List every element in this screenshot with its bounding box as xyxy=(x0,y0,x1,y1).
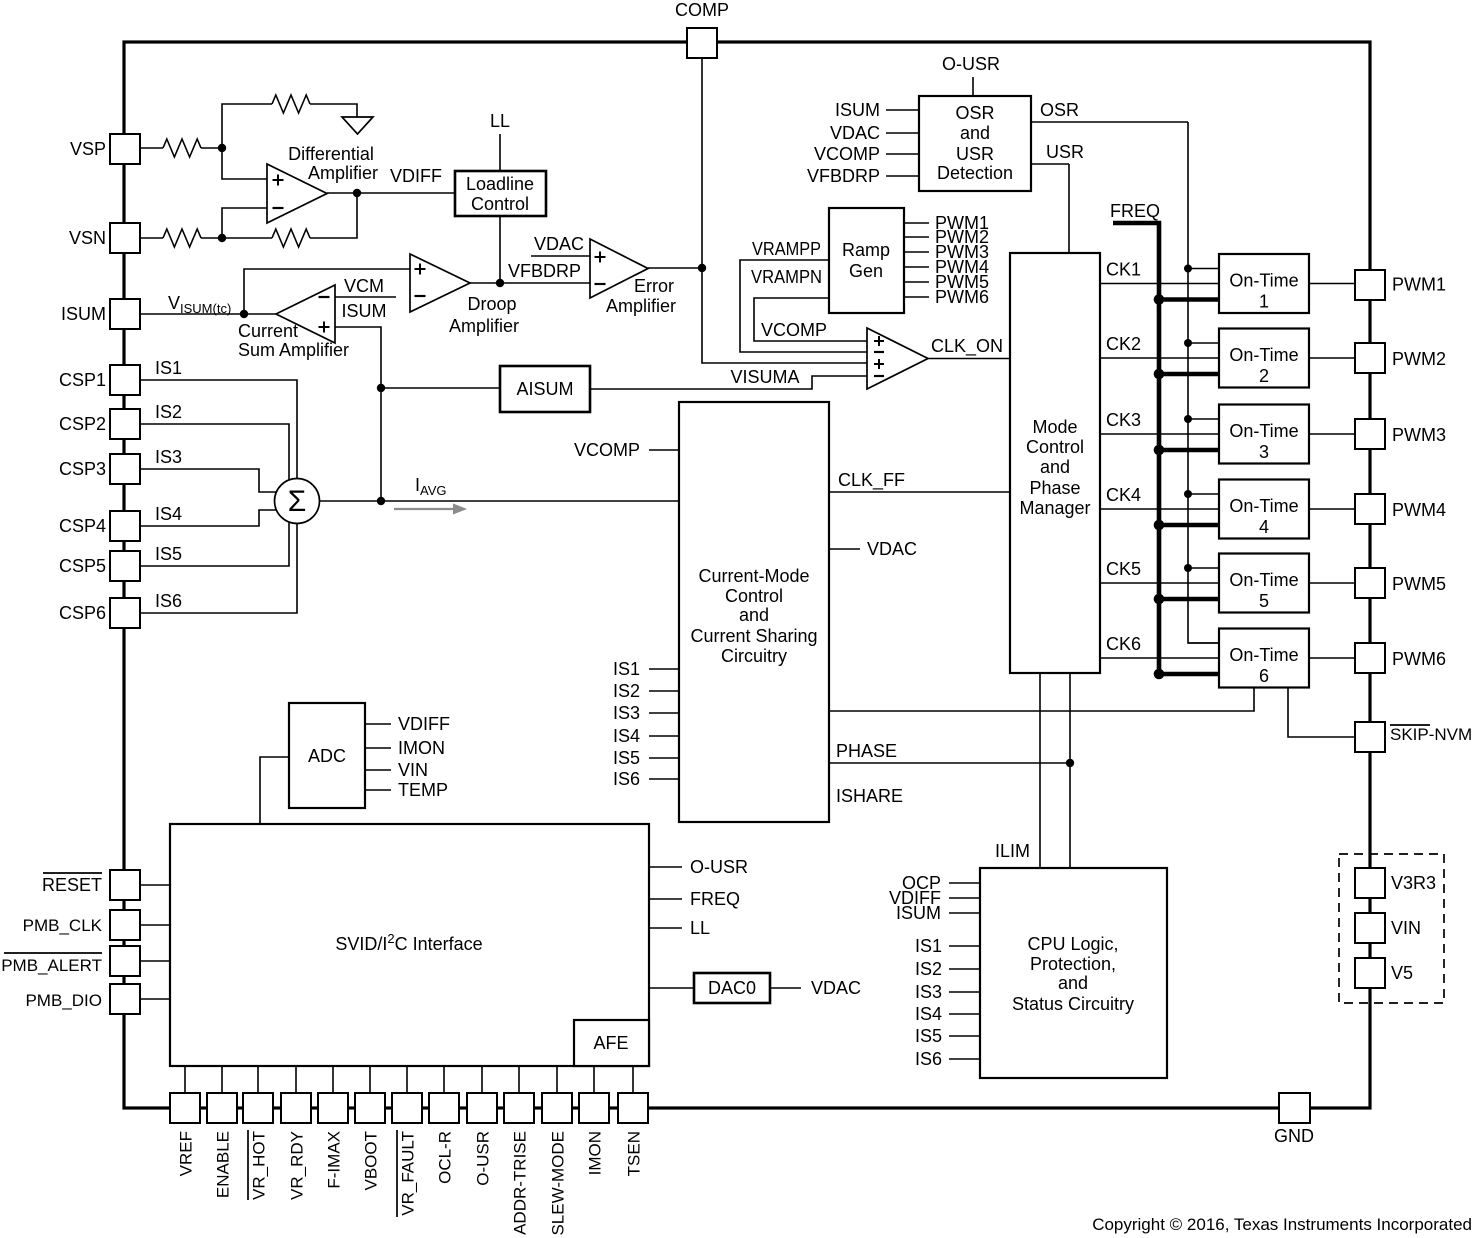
block Mode Control and Phase Manager xyxy=(1010,253,1100,673)
wire On-Time 6 to SKIP-NVM xyxy=(1288,688,1355,737)
wire OSR stub to On-Time 5 xyxy=(1188,567,1219,569)
svg-text:LL: LL xyxy=(490,111,510,131)
wire On-Time 2 output to PWM2 xyxy=(1309,357,1355,359)
wire VCOMP stub current-mode xyxy=(649,449,679,451)
svg-text:FREQ: FREQ xyxy=(1110,201,1160,221)
svg-text:SKIP-NVM: SKIP-NVM xyxy=(1390,725,1472,744)
wire VDIFF stub cpu xyxy=(949,897,980,899)
svg-text:IS4: IS4 xyxy=(155,504,182,524)
svg-text:PWM6: PWM6 xyxy=(935,287,989,307)
wire resistor to node A xyxy=(201,147,222,149)
wire ADC VDIFF stub xyxy=(365,723,391,725)
svg-text:O-USR: O-USR xyxy=(942,54,1000,74)
svg-text:VDIFF: VDIFF xyxy=(390,166,442,186)
overline VR_FAULT xyxy=(396,1130,398,1217)
op-amp U3 Droop Amplifier xyxy=(410,254,470,312)
wire droop output to VFBDRP node xyxy=(470,282,500,284)
wire VCOMP to OSR block xyxy=(886,153,919,155)
svg-text:CK5: CK5 xyxy=(1106,559,1141,579)
svg-text:Phase: Phase xyxy=(1029,478,1080,498)
svg-text:PWM3: PWM3 xyxy=(1392,425,1446,445)
svg-text:V5: V5 xyxy=(1391,963,1413,983)
wire SVID to VREF pin xyxy=(184,1066,186,1093)
svg-text:IS1: IS1 xyxy=(613,659,640,679)
svg-text:VCM: VCM xyxy=(344,276,384,296)
svg-text:IS5: IS5 xyxy=(915,1026,942,1046)
pin PWM5 xyxy=(1355,568,1385,598)
svg-text:COMP: COMP xyxy=(675,0,729,20)
wire Loadline Control to VFBDRP node xyxy=(499,216,501,283)
wire ISUM pin to current sum node xyxy=(140,313,276,315)
wire VCM to current sum - input xyxy=(335,296,396,298)
wire COMP pin down xyxy=(701,58,703,268)
wire LL stub svid xyxy=(649,927,682,929)
pin TSEN xyxy=(618,1093,648,1123)
wire AISUM node down to IAVG node xyxy=(380,388,382,501)
svg-text:F-IMAX: F-IMAX xyxy=(325,1131,344,1189)
svg-text:ISUM: ISUM xyxy=(342,301,387,321)
pin O-USR xyxy=(467,1093,497,1123)
block ADC xyxy=(289,703,365,808)
node OSR junction 4 xyxy=(1184,490,1192,498)
wire VDAC stub current-mode xyxy=(829,548,860,550)
wire feedback bottom to output node xyxy=(310,193,357,238)
wire ADC to SVID interface xyxy=(260,757,289,824)
pin ENABLE xyxy=(207,1093,237,1123)
pin PWM3 xyxy=(1355,419,1385,449)
svg-text:VDAC: VDAC xyxy=(811,978,861,998)
wire O-USR to OSR block xyxy=(972,77,974,96)
svg-text:CK3: CK3 xyxy=(1106,410,1141,430)
wire VDIFF to Loadline Control xyxy=(327,192,455,194)
svg-text:On-Time: On-Time xyxy=(1229,645,1298,665)
svg-text:On-Time: On-Time xyxy=(1229,421,1298,441)
svg-text:Current-Mode: Current-Mode xyxy=(698,566,809,586)
svg-text:VIN: VIN xyxy=(1391,918,1421,938)
wire ramp PWM2 stub xyxy=(904,236,929,238)
wire On-Time 3 output to PWM3 xyxy=(1309,433,1355,435)
svg-text:PWM4: PWM4 xyxy=(1392,500,1446,520)
pin GND xyxy=(1279,1093,1310,1123)
wire SVID to ENABLE pin xyxy=(221,1066,223,1093)
wire LL to Loadline Control xyxy=(499,134,501,171)
block OSR and USR Detection xyxy=(919,96,1031,191)
wire mode control to CPU logic xyxy=(1069,673,1071,868)
svg-text:Control: Control xyxy=(1026,437,1084,457)
chip boundary U1 (TPS53679 functional block diagram outline) xyxy=(124,42,1370,1108)
svg-text:VBOOT: VBOOT xyxy=(362,1131,381,1191)
svg-text:VCOMP: VCOMP xyxy=(761,320,827,340)
svg-text:IS3: IS3 xyxy=(915,982,942,1002)
svg-text:IS3: IS3 xyxy=(613,703,640,723)
wire CK4 xyxy=(1100,508,1219,510)
wire ramp PWM3 stub xyxy=(904,251,929,253)
svg-text:ISUM: ISUM xyxy=(896,903,941,923)
wire On-Time 4 output to PWM4 xyxy=(1309,508,1355,510)
wire CLK_FF xyxy=(829,491,1010,493)
svg-text:VRAMPP: VRAMPP xyxy=(752,239,821,259)
pin VSN xyxy=(110,223,140,253)
wire IS1 stub current-mode xyxy=(649,668,679,670)
svg-text:CSP3: CSP3 xyxy=(59,459,106,479)
svg-text:IMON: IMON xyxy=(586,1131,605,1175)
svg-text:CK1: CK1 xyxy=(1106,260,1141,280)
svg-text:and: and xyxy=(1040,457,1070,477)
svg-text:IS1: IS1 xyxy=(155,358,182,378)
pin COMP xyxy=(687,28,717,58)
svg-text:and: and xyxy=(739,605,769,625)
svg-text:FREQ: FREQ xyxy=(690,889,740,909)
svg-text:ISUM: ISUM xyxy=(61,304,106,324)
wire FREQ stub to On-Time 3 xyxy=(1159,448,1219,453)
node PHASE junction xyxy=(1066,759,1074,767)
wire FREQ stub to On-Time 4 xyxy=(1159,523,1219,528)
svg-text:LL: LL xyxy=(690,918,710,938)
wire SVID to VBOOT pin xyxy=(369,1066,371,1093)
node OSR junction 5 xyxy=(1184,564,1192,572)
wire IS6 xyxy=(140,523,297,613)
pin VR_FAULT xyxy=(392,1093,422,1123)
pin CSP5 xyxy=(110,551,140,581)
svg-text:V3R3: V3R3 xyxy=(1391,873,1436,893)
wire IS6 stub current-mode xyxy=(649,778,679,780)
wire FREQ rail xyxy=(1113,223,1159,674)
wire IS4 stub current-mode xyxy=(649,735,679,737)
pin PMB_ALERT xyxy=(110,946,140,976)
wire SVID to VR_HOT pin xyxy=(257,1066,259,1093)
svg-text:PMB_CLK: PMB_CLK xyxy=(23,916,103,935)
svg-text:Copyright © 2016, Texas Instru: Copyright © 2016, Texas Instruments Inco… xyxy=(1092,1215,1472,1234)
node B junction xyxy=(218,234,226,242)
wire ramp PWM6 stub xyxy=(904,296,929,298)
svg-text:DAC0: DAC0 xyxy=(708,978,756,998)
svg-text:Sum Amplifier: Sum Amplifier xyxy=(238,340,349,360)
svg-text:VR_HOT: VR_HOT xyxy=(250,1131,269,1200)
pin VR_HOT xyxy=(243,1093,273,1123)
svg-text:Mode: Mode xyxy=(1032,417,1077,437)
wire node B to feedback resistor bottom xyxy=(222,237,272,239)
pin F-IMAX xyxy=(318,1093,348,1123)
svg-text:Detection: Detection xyxy=(937,163,1013,183)
block On-Time 3 xyxy=(1219,405,1309,464)
pin CSP4 xyxy=(110,511,140,541)
svg-text:USR: USR xyxy=(1046,142,1084,162)
wire VRAMPP xyxy=(740,260,867,352)
pin IMON xyxy=(579,1093,609,1123)
wire On-Time 6 to current-mode block xyxy=(829,688,1254,711)
wire VSN to input resistor xyxy=(140,237,163,239)
wire CK3 xyxy=(1100,433,1219,435)
wire SVID to DAC0 xyxy=(649,987,694,989)
pin CSP1 xyxy=(110,365,140,395)
svg-text:CLK_ON: CLK_ON xyxy=(931,336,1003,357)
svg-text:PMB_ALERT: PMB_ALERT xyxy=(1,956,102,975)
node current sum junction xyxy=(240,310,248,318)
wire SVID to IMON pin xyxy=(593,1066,595,1093)
pin ADDR-TRISE xyxy=(504,1093,534,1123)
node FREQ junction 6 xyxy=(1154,669,1165,680)
resistor feedback top xyxy=(272,95,310,113)
wire OSR stub to On-Time 3 xyxy=(1188,418,1219,420)
pin PWM2 xyxy=(1355,343,1385,373)
pin VBOOT xyxy=(355,1093,385,1123)
wire On-Time 1 output to PWM1 xyxy=(1309,283,1355,285)
wire OCP stub xyxy=(949,882,980,884)
wire ADC IMON stub xyxy=(365,747,391,749)
wire error amp output to COMP node xyxy=(648,267,702,269)
wire ramp PWM4 stub xyxy=(904,266,929,268)
wire FREQ stub svid xyxy=(649,898,682,900)
node FREQ junction 3 xyxy=(1154,445,1165,456)
svg-text:IS4: IS4 xyxy=(915,1004,942,1024)
wire OSR stub to On-Time 1 xyxy=(1188,268,1219,270)
svg-text:Differential: Differential xyxy=(288,144,374,164)
svg-text:ADC: ADC xyxy=(308,746,346,766)
svg-text:4: 4 xyxy=(1259,517,1269,537)
wire ramp PWM1 stub xyxy=(904,222,929,224)
pin VR_RDY xyxy=(281,1093,311,1123)
svg-text:CK4: CK4 xyxy=(1106,485,1141,505)
block SVID/I2C Interface xyxy=(170,824,649,1066)
svg-text:VDAC: VDAC xyxy=(867,539,917,559)
wire On-Time 5 output to PWM5 xyxy=(1309,582,1355,584)
svg-text:Gen: Gen xyxy=(849,261,883,281)
wire AISUM node to AISUM block xyxy=(381,387,500,389)
svg-text:CSP6: CSP6 xyxy=(59,603,106,623)
wire PMB_CLK to SVID xyxy=(140,924,170,926)
resistor VSN input xyxy=(163,229,201,247)
svg-text:CLK_FF: CLK_FF xyxy=(838,470,905,491)
wire sigma output IAVG xyxy=(320,500,680,502)
wire FREQ stub to On-Time 2 xyxy=(1159,372,1219,377)
pin VREF xyxy=(170,1093,200,1123)
pin ISUM xyxy=(110,299,140,329)
pin PWM6 xyxy=(1355,643,1385,673)
wire resistor to node B xyxy=(201,237,222,239)
wire IS4 xyxy=(140,510,277,526)
wire CK5 xyxy=(1100,582,1219,584)
svg-text:OSR: OSR xyxy=(1040,100,1079,120)
svg-text:IS6: IS6 xyxy=(613,769,640,789)
svg-text:VFBDRP: VFBDRP xyxy=(508,261,581,281)
svg-text:Current Sharing: Current Sharing xyxy=(690,626,817,646)
block On-Time 2 xyxy=(1219,329,1309,388)
svg-text:AFE: AFE xyxy=(593,1033,628,1053)
svg-text:AISUM: AISUM xyxy=(516,379,573,399)
node FREQ junction 2 xyxy=(1154,369,1165,380)
node OSR junction 2 xyxy=(1184,339,1192,347)
svg-text:IS2: IS2 xyxy=(155,402,182,422)
block DAC0 xyxy=(694,973,770,1003)
wire SVID to VR_RDY pin xyxy=(295,1066,297,1093)
wire PMB_DIO to SVID xyxy=(140,998,170,1000)
wire IS5 stub current-mode xyxy=(649,757,679,759)
wire IS3 xyxy=(140,469,277,492)
wire RESET to SVID xyxy=(140,884,170,886)
wire node A up to feedback resistor xyxy=(222,104,272,148)
wire ILIM xyxy=(1039,673,1041,868)
op-amp U4 Error Amplifier xyxy=(590,239,648,298)
svg-text:ISHARE: ISHARE xyxy=(836,786,903,806)
svg-text:VIN: VIN xyxy=(398,760,428,780)
svg-text:TEMP: TEMP xyxy=(398,780,448,800)
wire ADC VIN stub xyxy=(365,769,391,771)
svg-text:On-Time: On-Time xyxy=(1229,271,1298,291)
block On-Time 4 xyxy=(1219,480,1309,539)
overline RESET xyxy=(43,872,102,874)
wire VFBDRP to error amp - input xyxy=(500,282,590,284)
svg-text:On-Time: On-Time xyxy=(1229,496,1298,516)
node VDIFF junction xyxy=(353,189,361,197)
block Ramp Gen xyxy=(829,208,904,313)
wire OSR output xyxy=(1031,121,1188,123)
svg-text:Current: Current xyxy=(238,321,298,341)
wire ADC TEMP stub xyxy=(365,789,391,791)
block On-Time 5 xyxy=(1219,554,1309,613)
svg-text:VSP: VSP xyxy=(70,139,106,159)
svg-text:IS6: IS6 xyxy=(155,591,182,611)
svg-text:VFBDRP: VFBDRP xyxy=(807,166,880,186)
svg-text:RESET: RESET xyxy=(42,875,102,895)
wire IS1 stub cpu xyxy=(949,945,980,947)
wire ISUM stub cpu xyxy=(949,912,980,914)
svg-text:IMON: IMON xyxy=(398,738,445,758)
svg-text:OSR: OSR xyxy=(955,103,994,123)
svg-text:VR_FAULT: VR_FAULT xyxy=(399,1131,418,1216)
svg-text:VDIFF: VDIFF xyxy=(398,714,450,734)
wire SVID to OCL-R pin xyxy=(443,1066,445,1093)
wire OSR stub to On-Time 6 xyxy=(1188,642,1219,644)
node FREQ junction 5 xyxy=(1154,594,1165,605)
svg-text:PWM2: PWM2 xyxy=(1392,349,1446,369)
svg-text:Circuitry: Circuitry xyxy=(721,646,787,666)
wire OSR vertical rail xyxy=(1188,122,1219,643)
block AISUM xyxy=(500,366,590,412)
svg-text:CSP4: CSP4 xyxy=(59,516,106,536)
block Current-Mode Control and Current Sharing Circuitry xyxy=(679,402,829,822)
block On-Time 1 xyxy=(1219,254,1309,313)
wire FREQ stub to On-Time 6 xyxy=(1159,672,1219,677)
svg-text:GND: GND xyxy=(1274,1126,1314,1146)
node FREQ junction 4 xyxy=(1154,520,1165,531)
svg-text:Ramp: Ramp xyxy=(842,240,890,260)
svg-text:VCOMP: VCOMP xyxy=(574,440,640,460)
svg-text:IS5: IS5 xyxy=(613,748,640,768)
wire node B to diff amp - input xyxy=(222,208,267,238)
block Loadline Control xyxy=(455,171,546,216)
wire IS2 xyxy=(140,424,289,481)
svg-text:1: 1 xyxy=(1259,292,1269,312)
block On-Time 6 xyxy=(1219,629,1309,688)
wire CK1 xyxy=(1100,283,1219,285)
wire DAC0 output VDAC xyxy=(770,987,801,989)
svg-text:IS4: IS4 xyxy=(613,726,640,746)
svg-text:PWM5: PWM5 xyxy=(1392,574,1446,594)
resistor feedback bottom xyxy=(272,229,310,247)
summer sigma symbol xyxy=(275,479,320,524)
svg-text:VREF: VREF xyxy=(177,1131,196,1176)
svg-text:Loadline: Loadline xyxy=(466,174,534,194)
svg-text:IS5: IS5 xyxy=(155,544,182,564)
wire droop + input to V_ISUM node xyxy=(244,269,410,314)
wire SVID to F-IMAX pin xyxy=(332,1066,334,1093)
svg-text:CK6: CK6 xyxy=(1106,634,1141,654)
wire node A to diff amp + input xyxy=(222,148,267,179)
overline VR_HOT xyxy=(247,1130,249,1200)
wire FREQ stub to On-Time 5 xyxy=(1159,597,1219,602)
svg-text:IS3: IS3 xyxy=(155,447,182,467)
svg-text:On-Time: On-Time xyxy=(1229,570,1298,590)
svg-text:CPU Logic,: CPU Logic, xyxy=(1027,934,1118,954)
arrow IAVG direction xyxy=(394,508,453,510)
wire IS3 stub cpu xyxy=(949,991,980,993)
wire IS5 xyxy=(140,521,289,566)
overline PMB_ALERT xyxy=(4,952,102,954)
pin PMB_DIO xyxy=(110,984,140,1014)
node VFBDRP junction xyxy=(496,279,504,287)
resistor VSP input xyxy=(163,139,201,157)
wire feedback resistor to ground stem xyxy=(310,104,357,117)
svg-text:ILIM: ILIM xyxy=(995,841,1030,861)
svg-text:5: 5 xyxy=(1259,591,1269,611)
wire IS2 stub cpu xyxy=(949,968,980,970)
wire IS6 stub cpu xyxy=(949,1058,980,1060)
node AISUM junction xyxy=(377,384,385,392)
wire VDAC to error amp + input xyxy=(531,255,590,257)
wire VFBDRP to OSR block xyxy=(886,175,919,177)
svg-text:SLEW-MODE: SLEW-MODE xyxy=(549,1131,568,1236)
wire ISUM to OSR block xyxy=(886,109,919,111)
svg-text:PMB_DIO: PMB_DIO xyxy=(25,991,102,1010)
svg-text:USR: USR xyxy=(956,144,994,164)
svg-text:Amplifier: Amplifier xyxy=(606,296,676,316)
pin OCL-R xyxy=(429,1093,459,1123)
svg-text:IS2: IS2 xyxy=(915,959,942,979)
svg-text:Droop: Droop xyxy=(467,294,516,314)
wire FREQ stub to On-Time 1 xyxy=(1159,297,1219,302)
node A junction xyxy=(218,144,226,152)
svg-text:and: and xyxy=(960,123,990,143)
wire OSR stub to On-Time 2 xyxy=(1188,342,1219,344)
svg-text:Amplifier: Amplifier xyxy=(449,316,519,336)
pin PMB_CLK xyxy=(110,910,140,940)
wire IS5 stub cpu xyxy=(949,1035,980,1037)
pin V5 xyxy=(1355,958,1385,988)
svg-text:IS1: IS1 xyxy=(915,936,942,956)
svg-text:VDAC: VDAC xyxy=(534,234,584,254)
pin VIN xyxy=(1355,913,1385,943)
svg-text:OCL-R: OCL-R xyxy=(436,1131,455,1184)
svg-text:6: 6 xyxy=(1259,666,1269,686)
wire SVID to O-USR pin xyxy=(481,1066,483,1093)
svg-text:PWM6: PWM6 xyxy=(1392,649,1446,669)
svg-text:VR_RDY: VR_RDY xyxy=(288,1131,307,1200)
svg-text:PWM1: PWM1 xyxy=(1392,275,1446,295)
svg-text:CSP1: CSP1 xyxy=(59,370,106,390)
node FREQ junction 1 xyxy=(1154,294,1165,305)
wire SVID to VR_FAULT pin xyxy=(406,1066,408,1093)
wire SVID to SLEW-MODE pin xyxy=(556,1066,558,1093)
svg-text:ENABLE: ENABLE xyxy=(214,1131,233,1198)
svg-text:O-USR: O-USR xyxy=(474,1131,493,1186)
pin V3R3 xyxy=(1355,868,1385,898)
wire VDAC to OSR block xyxy=(886,132,919,134)
svg-text:VCOMP: VCOMP xyxy=(814,144,880,164)
wire O-USR stub svid xyxy=(649,866,682,868)
svg-text:Control: Control xyxy=(471,194,529,214)
svg-text:ADDR-TRISE: ADDR-TRISE xyxy=(511,1131,530,1235)
node IAVG junction xyxy=(377,497,385,505)
